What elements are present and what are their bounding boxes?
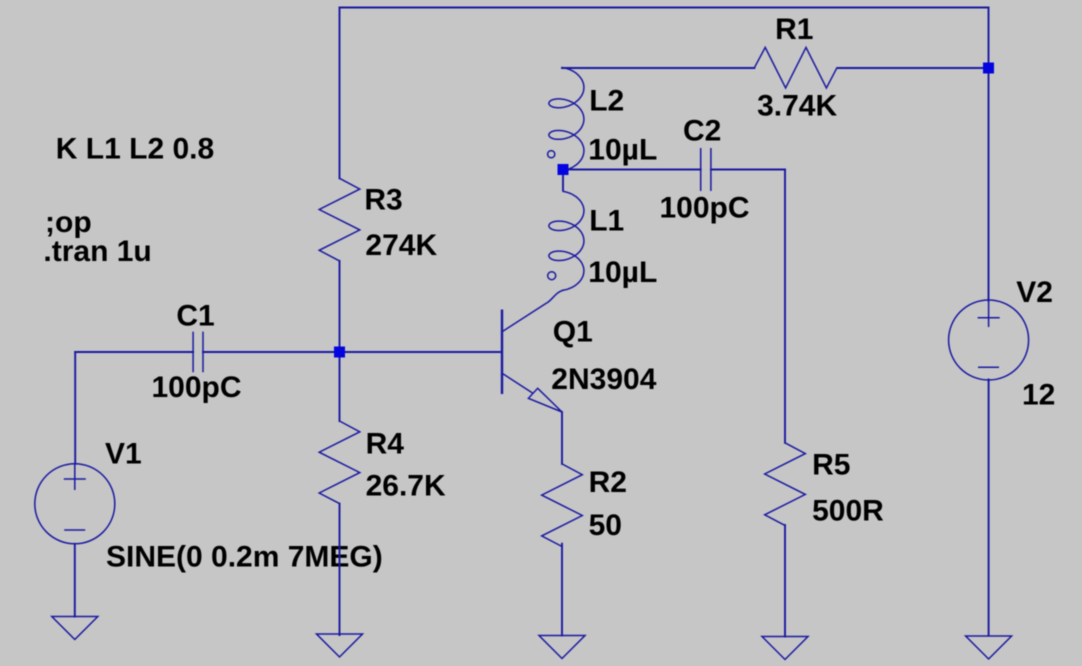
wire node to R4 [339, 352, 341, 421]
junction node base/C1/R3/R4 [334, 347, 345, 358]
transistor Q1 collector line [503, 303, 547, 332]
ground V1 [52, 617, 98, 640]
transistor Q1 emitter arrow [528, 388, 562, 412]
wire R2 to ground [561, 544, 563, 636]
ground R5 [762, 637, 808, 660]
svg-text:R5: R5 [812, 449, 850, 482]
wire emitter to R2 [561, 412, 563, 464]
wire C2 to R5 column [711, 169, 785, 171]
resistor R5 500R [765, 443, 806, 526]
svg-text:L2: L2 [589, 85, 624, 118]
wire L2 top to R1 [562, 67, 754, 69]
svg-text:SINE(0 0.2m 7MEG): SINE(0 0.2m 7MEG) [106, 541, 383, 574]
wire R3 to node [339, 261, 341, 352]
voltage source V1 circle [35, 464, 115, 544]
resistor R4 26.7K [319, 421, 360, 504]
svg-text:500R: 500R [812, 495, 884, 528]
wire R3 top [339, 8, 341, 179]
svg-text:274K: 274K [365, 229, 437, 262]
resistor R2 50 [542, 464, 583, 547]
V1 minus sign [64, 529, 85, 531]
wire R1 to right node [837, 67, 988, 69]
wire base left of C1 [75, 351, 193, 353]
wire L1 top stub [562, 174, 564, 190]
capacitor C2 100pC [701, 148, 711, 191]
wire V1 top [74, 352, 76, 464]
svg-text:R2: R2 [589, 466, 627, 499]
resistor R1 3.74K [754, 47, 837, 88]
wire V2 to ground [988, 380, 990, 636]
svg-text:3.74K: 3.74K [757, 90, 837, 123]
svg-text:Q1: Q1 [553, 316, 593, 349]
inductor L2 phase dot [548, 151, 555, 158]
svg-text:V2: V2 [1016, 276, 1053, 309]
wire node to C2 [563, 169, 701, 171]
junction node at R1 right / V2 top [983, 63, 994, 74]
V2 plus sign [978, 301, 1000, 328]
svg-text:.tran 1u: .tran 1u [43, 235, 151, 268]
svg-text:L1: L1 [589, 205, 624, 238]
svg-text:V1: V1 [105, 438, 142, 471]
junction node L2/L1/C2 [558, 164, 569, 175]
voltage source V2 circle [949, 300, 1029, 380]
svg-text:C1: C1 [176, 300, 214, 333]
wire R5 to ground [784, 525, 786, 637]
transistor Q1 base bar [501, 310, 503, 395]
wire top horizontal [340, 7, 989, 9]
svg-text:12: 12 [1022, 379, 1055, 412]
capacitor C1 100pC [193, 332, 203, 373]
svg-text:50: 50 [589, 509, 622, 542]
inductor L1 coil [547, 191, 584, 303]
svg-text:10µL: 10µL [588, 256, 657, 289]
svg-text:K L1 L2 0.8: K L1 L2 0.8 [56, 133, 214, 166]
ground R2 [539, 636, 585, 659]
svg-text:100pC: 100pC [660, 192, 750, 225]
svg-text:10µL: 10µL [588, 134, 657, 167]
transistor Q1 emitter line [503, 374, 533, 393]
svg-text:R1: R1 [775, 13, 813, 46]
inductor L2 coil [549, 67, 584, 170]
ground V2 [966, 636, 1012, 659]
wire right vertical to V2 [988, 8, 990, 301]
ground R4 [317, 634, 363, 657]
svg-text:100pC: 100pC [152, 371, 242, 404]
wire C1 to base node [203, 351, 502, 353]
svg-text:2N3904: 2N3904 [551, 363, 656, 396]
svg-text:26.7K: 26.7K [366, 470, 446, 503]
svg-text:C2: C2 [683, 115, 721, 148]
wire R4 to ground [339, 504, 341, 635]
wire R5 top vertical [784, 170, 786, 443]
svg-text:R4: R4 [366, 428, 405, 461]
resistor R3 274K [319, 178, 360, 261]
inductor L1 phase dot [548, 272, 556, 280]
svg-text:R3: R3 [364, 184, 402, 217]
wire V1 bottom [74, 544, 76, 617]
V1 plus sign [64, 464, 86, 490]
V2 minus sign [978, 366, 999, 368]
